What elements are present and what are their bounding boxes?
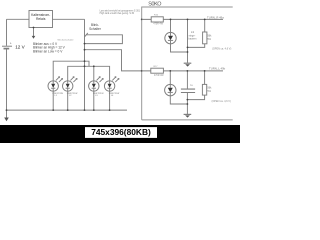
wire below battery (6, 49, 8, 110)
svg-text:5%: 5% (207, 90, 211, 93)
svg-text:Blinker an Low = 0 V: Blinker an Low = 0 V (33, 49, 63, 53)
svg-text:745x396(80KB): 745x396(80KB) (91, 127, 151, 137)
battery B1 12V (2, 45, 12, 47)
svg-text:L3: L3 (95, 95, 98, 97)
svg-text:Relais: Relais (36, 17, 46, 21)
wire relay right (53, 18, 85, 20)
node box feeds (141, 19, 143, 21)
svg-text:bautem: bautem (188, 38, 196, 41)
wire main vertical (84, 19, 86, 110)
resistor R16 (151, 17, 163, 22)
svg-text:12 V: 12 V (15, 44, 25, 49)
ground left (6, 110, 8, 118)
svg-text:L4: L4 (111, 95, 114, 97)
svg-text:L1: L1 (55, 95, 58, 97)
svg-text:470R 4W: 470R 4W (154, 75, 164, 77)
switch S1 arm (85, 33, 88, 37)
lamp L2 (62, 77, 77, 111)
resistor R18 56k (203, 32, 207, 44)
lamp L1 (48, 77, 63, 111)
LED D2 (169, 71, 171, 88)
wire lamp3 riser (93, 66, 95, 83)
wire left drop (6, 19, 8, 46)
svg-text:+: + (10, 42, 12, 46)
wire lamp rail A (53, 61, 89, 83)
resistor R19 56k (202, 84, 206, 95)
svg-text:Wechselschalter: Wechselschalter (58, 38, 74, 41)
node switch junctions (84, 43, 86, 45)
svg-text:Schalter: Schalter (89, 27, 102, 31)
wire lamp rail B (68, 66, 110, 83)
LED D1 (170, 19, 172, 35)
node row1 junctions (170, 19, 172, 21)
svg-text:L2: L2 (69, 95, 72, 97)
svg-text:High wird erreicht bei gezog.: High wird erreicht bei gezog. S 30 (100, 12, 135, 15)
svg-text:S0KO: S0KO (148, 1, 161, 7)
svg-text:TURN_L 49b: TURN_L 49b (209, 67, 226, 71)
svg-text:1u: 1u (190, 85, 193, 87)
caption bar (0, 125, 240, 143)
wire row2 (142, 70, 223, 72)
wire bypass top (187, 19, 189, 63)
ground bottom block (184, 113, 192, 115)
svg-text:Low wird erreicht bei gezogene: Low wird erreicht bei gezogenem S 301 (100, 9, 141, 12)
wire row1 (142, 18, 223, 20)
resistor R17 (151, 68, 164, 73)
ground relay stub (33, 28, 35, 37)
svg-text:(OPEN ca. 4,6 V): (OPEN ca. 4,6 V) (212, 100, 231, 103)
lamp L4 (104, 77, 119, 111)
capacitor C1 (186, 71, 188, 89)
svg-text:R16: R16 (154, 15, 159, 17)
lamp L3 (89, 77, 104, 111)
svg-text:(OPEN ca. 4,6 V): (OPEN ca. 4,6 V) (212, 48, 231, 51)
wire switch low to box (85, 50, 142, 71)
svg-text:R17: R17 (154, 66, 159, 68)
wire bottom rail (7, 109, 128, 111)
svg-text:TURN_R 49a: TURN_R 49a (207, 15, 224, 19)
node bottom rail junctions (6, 109, 8, 111)
wire relay left (7, 18, 30, 20)
relay K1 (29, 11, 53, 28)
node rail junctions (84, 60, 86, 62)
svg-text:470R 4W: 470R 4W (153, 23, 163, 25)
ground top block (184, 62, 192, 64)
node row2 junctions (169, 70, 171, 72)
svg-text:5%: 5% (207, 38, 211, 41)
box S0KO (142, 7, 233, 120)
wire switch high loop (85, 35, 123, 44)
